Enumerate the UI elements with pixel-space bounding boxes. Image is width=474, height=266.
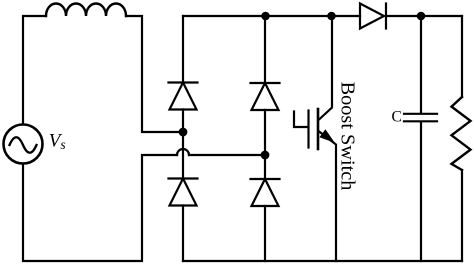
wire: top rail right section after boost diode	[386, 15, 462, 17]
inductor L1	[46, 3, 126, 16]
gate lead stub	[294, 112, 308, 128]
wire: source bottom lead, bottom return, riser and wire to right midpoint with hop	[23, 155, 177, 261]
node junction dot: right leg top rail	[261, 12, 270, 21]
gate bar	[307, 111, 309, 148]
diode D2 (bridge upper-right)	[251, 83, 280, 110]
wire: source top lead to inductor	[23, 16, 46, 124]
wire: inductor to bridge left midpoint node	[126, 16, 183, 132]
diode D5 (boost output diode)	[360, 4, 386, 29]
diode D3 (bridge lower-left)	[169, 179, 198, 206]
node junction dot: left bridge midpoint	[179, 128, 188, 137]
wire: hop to right bridge midpoint node	[189, 154, 265, 156]
svg-text:C: C	[392, 108, 402, 125]
wire: D2 to right midpoint node and down to D4	[264, 110, 266, 179]
wire: bridge right leg upper lead	[264, 16, 266, 83]
node junction dot: capacitor on top rail	[417, 12, 426, 21]
collector lead	[319, 16, 333, 120]
diode D4 (bridge lower-right)	[251, 179, 280, 206]
node junction dot: right bridge midpoint	[261, 151, 270, 160]
diode D1 (bridge upper-left)	[169, 83, 198, 110]
wire: top rail left section	[183, 15, 360, 17]
emitter arrow	[320, 130, 333, 142]
wire hop over bridge left leg	[177, 149, 189, 155]
emitter lead	[319, 131, 337, 261]
wire: D3 to bottom rail	[182, 206, 184, 262]
wire: D1 to left midpoint node and down to D3	[182, 110, 184, 179]
transistor Q1 boost switch (IGBT)	[294, 16, 336, 261]
wire: bridge left leg upper lead	[182, 16, 184, 83]
svg-text:Vs: Vs	[49, 131, 66, 152]
channel bar	[317, 109, 320, 149]
capacitor C	[404, 16, 437, 261]
AC source Vs	[4, 125, 43, 164]
node junction dot: switch collector on top rail	[327, 12, 336, 21]
wire: D4 to bottom rail	[264, 206, 266, 261]
svg-text:Boost Switch: Boost Switch	[337, 82, 359, 191]
resistor R load	[452, 16, 471, 261]
wire: bottom rail	[183, 260, 462, 262]
